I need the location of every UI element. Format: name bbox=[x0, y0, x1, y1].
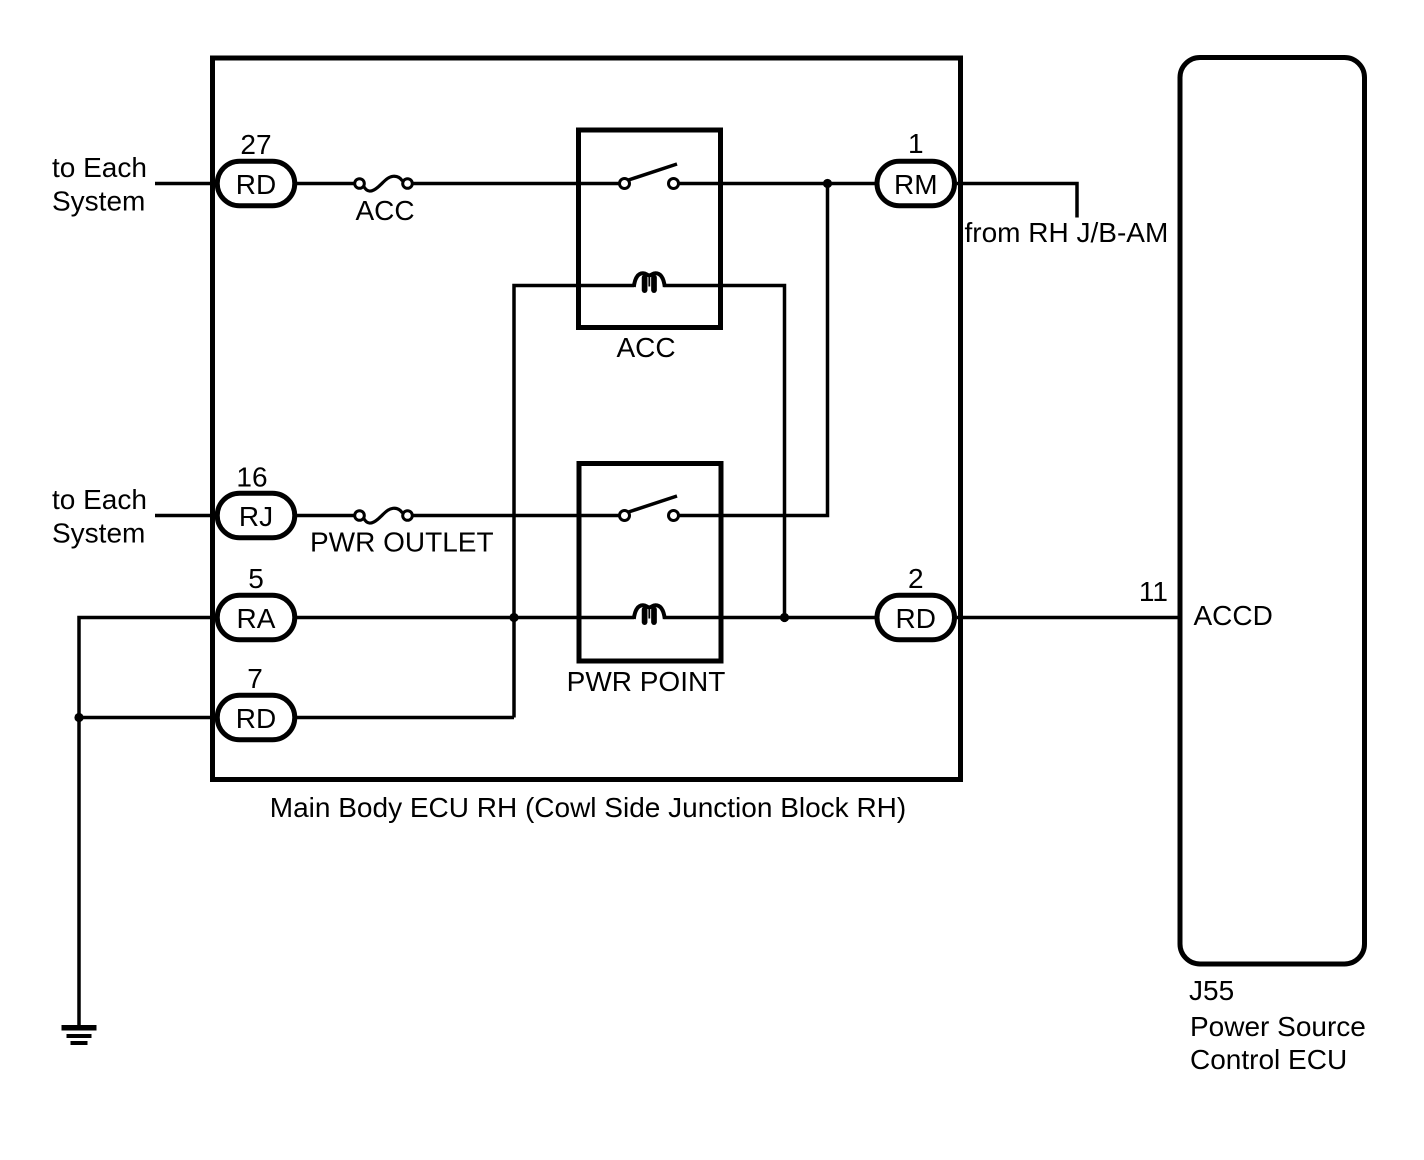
wire: RJ16 pin lead-in from "to Each System" bbox=[155, 514, 360, 518]
wire: ACC relay coil left end down to pin RD7 net bbox=[514, 286, 634, 718]
relay PWR POINT: switch contact circles bbox=[620, 511, 630, 521]
relay ACC: switch lever bbox=[629, 164, 678, 180]
pin RD 2 bbox=[877, 563, 955, 640]
svg-text:Power Source: Power Source bbox=[1190, 1011, 1366, 1042]
svg-text:PWR POINT: PWR POINT bbox=[567, 666, 726, 697]
svg-text:RD: RD bbox=[896, 603, 936, 634]
relay ACC: switch contact circles bbox=[620, 179, 630, 189]
junction dot ground net bbox=[74, 713, 83, 722]
svg-text:11: 11 bbox=[1139, 576, 1168, 607]
wire: pin RM to RH J/B-AM stub bbox=[957, 184, 1077, 218]
wire: pin RA5 to PWR POINT coil bbox=[297, 616, 634, 620]
svg-text:RD: RD bbox=[236, 169, 276, 200]
relay ACC: coil bbox=[634, 273, 665, 290]
pin RJ 16 bbox=[217, 462, 295, 538]
svg-text:7: 7 bbox=[247, 663, 263, 694]
wire: pin RD2 to J55 pin 11 ACCD bbox=[957, 616, 1178, 620]
relay PWR POINT: switch lever bbox=[629, 496, 678, 512]
pin RM 1 bbox=[877, 128, 955, 206]
wire: fuse PWR OUTLET to PWR POINT relay switch bbox=[407, 514, 625, 518]
relay PWR POINT: coil bbox=[634, 605, 665, 622]
svg-text:16: 16 bbox=[236, 462, 267, 493]
svg-text:27: 27 bbox=[240, 129, 271, 160]
junction dot on RM net bbox=[823, 179, 832, 188]
svg-text:ACCD: ACCD bbox=[1194, 600, 1273, 631]
text: to Each System (middle) bbox=[52, 484, 147, 548]
wire: pin RA5 left lead down to ground bbox=[79, 618, 217, 1029]
wire: PWR POINT switch output up to RM net bbox=[674, 184, 828, 516]
fuse ACC bbox=[355, 176, 413, 191]
svg-text:RM: RM bbox=[894, 169, 938, 200]
wire: RD27 pin lead-in from "to Each System" bbox=[155, 182, 360, 186]
ground symbol bbox=[62, 1025, 97, 1045]
wire: pin RD7 to ACC coil return bbox=[297, 716, 514, 720]
wire: PWR POINT coil to pin RD2 bbox=[664, 616, 876, 620]
svg-text:Main Body ECU RH (Cowl Side Ju: Main Body ECU RH (Cowl Side Junction Blo… bbox=[270, 792, 906, 823]
svg-text:RJ: RJ bbox=[239, 501, 273, 532]
svg-text:Control ECU: Control ECU bbox=[1190, 1044, 1347, 1075]
svg-text:PWR OUTLET: PWR OUTLET bbox=[310, 527, 494, 558]
wire: pin RD7 left lead to ground net bbox=[79, 716, 217, 720]
wire: ACC relay coil right end down to ACCD net bbox=[664, 286, 785, 618]
junction dot ACC coil feed on ACCD net bbox=[780, 613, 789, 622]
ECU box: J55 Power Source Control ECU bbox=[1180, 58, 1365, 965]
wire: fuse ACC to ACC relay switch bbox=[407, 182, 625, 186]
svg-text:ACC: ACC bbox=[355, 195, 414, 226]
junction dot ACC coil return on RD7 net bbox=[509, 613, 518, 622]
relay PWR POINT: box bbox=[579, 464, 721, 662]
fuse PWR OUTLET bbox=[355, 508, 413, 523]
text: to Each System (top) bbox=[52, 152, 147, 216]
pin RD 27 bbox=[217, 129, 295, 206]
svg-text:RA: RA bbox=[237, 603, 276, 634]
main box: Main Body ECU RH (Cowl Side Junction Block RH) bbox=[213, 58, 961, 780]
svg-text:to Each: to Each bbox=[52, 484, 147, 515]
svg-text:ACC: ACC bbox=[616, 332, 675, 363]
svg-text:System: System bbox=[52, 186, 145, 217]
relay ACC: box bbox=[579, 130, 721, 328]
pin RD 7 bbox=[217, 663, 295, 740]
svg-text:from RH J/B-AM: from RH J/B-AM bbox=[965, 217, 1169, 248]
svg-text:RD: RD bbox=[236, 703, 276, 734]
svg-text:J55: J55 bbox=[1189, 975, 1234, 1006]
svg-text:5: 5 bbox=[248, 563, 264, 594]
wire: ACC relay switch output to pin RM bbox=[673, 182, 876, 186]
svg-text:System: System bbox=[52, 518, 145, 549]
svg-text:2: 2 bbox=[908, 563, 924, 594]
pin RA 5 bbox=[217, 563, 295, 640]
svg-text:1: 1 bbox=[908, 128, 924, 159]
svg-text:to Each: to Each bbox=[52, 152, 147, 183]
